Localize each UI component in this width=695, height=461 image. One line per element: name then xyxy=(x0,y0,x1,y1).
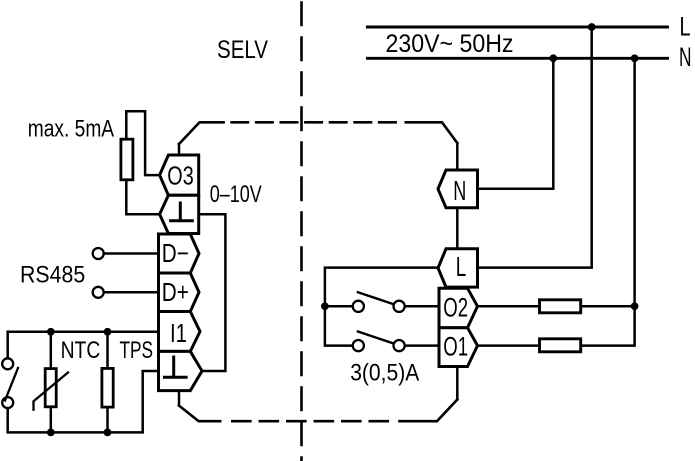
wire NTC top xyxy=(50,332,53,367)
svg-text:O2: O2 xyxy=(443,293,468,323)
svg-text:O3: O3 xyxy=(167,160,193,190)
enclosure bottom boundary left corner xyxy=(179,406,220,422)
svg-text:230V~ 50Hz: 230V~ 50Hz xyxy=(386,30,514,58)
junction dot N line left xyxy=(549,54,557,62)
svg-text:N: N xyxy=(453,175,466,206)
terminal O1 xyxy=(439,328,478,367)
terminal N xyxy=(438,170,478,208)
wire O3 terminal top to boundary xyxy=(178,144,181,155)
wire lower ground terminal bottom to boundary xyxy=(178,391,181,406)
svg-text:TPS: TPS xyxy=(120,337,154,364)
wire switch O2 to terminal O2 xyxy=(405,305,439,308)
enclosure top boundary right corner xyxy=(406,122,458,143)
junction dot TPS bottom xyxy=(104,429,112,437)
switch S1 contact circles (O1 row) xyxy=(353,340,364,351)
SELV boundary vertical dashed line xyxy=(300,3,303,461)
resistor load O1 xyxy=(540,339,581,352)
mains line L xyxy=(367,26,667,29)
terminal O3 xyxy=(160,155,199,195)
wire switch O1 to terminal O1 xyxy=(405,344,439,347)
wire N terminal top to boundary xyxy=(456,143,459,170)
wire O2 row to right vertical xyxy=(478,305,635,308)
terminal ground lower xyxy=(159,351,203,390)
switch S2 blade xyxy=(358,292,393,304)
svg-text:I1: I1 xyxy=(170,318,187,348)
svg-text:max. 5mA: max. 5mA xyxy=(28,116,114,143)
junction dot NTC bottom xyxy=(47,429,55,437)
wire NTC bottom xyxy=(50,408,53,432)
switch S2 contact circles (O2 row) xyxy=(353,301,364,312)
wire L-line to terminal L xyxy=(478,27,592,268)
terminal D- xyxy=(159,234,200,273)
wire 0-10V ground loop xyxy=(199,214,226,371)
wire N-line to terminal N xyxy=(478,58,554,188)
junction dot L line xyxy=(588,23,596,31)
svg-text:O1: O1 xyxy=(443,332,468,362)
terminal I1 xyxy=(159,312,201,352)
junction dot TPS top xyxy=(104,328,112,336)
terminal ground upper xyxy=(160,195,199,233)
ground symbol upper xyxy=(171,203,193,221)
RS485 terminal circle D- xyxy=(93,248,104,259)
ground symbol lower xyxy=(164,357,186,377)
terminal L xyxy=(438,249,478,287)
enclosure top boundary left corner xyxy=(179,122,224,144)
wire N-line down right side to O1 row xyxy=(478,58,635,345)
switch S1 blade xyxy=(358,332,393,344)
wire switch S3 top xyxy=(6,332,9,359)
junction dot N line right xyxy=(631,54,639,62)
TPS sensor body xyxy=(102,368,113,407)
terminal O2 xyxy=(439,288,478,327)
switch S3 blade xyxy=(5,368,18,401)
wire link N bottom to L top xyxy=(456,208,459,249)
switch S3 contact circles xyxy=(2,358,13,369)
wire D+ circle to terminal xyxy=(104,291,159,294)
junction dot O2 row left xyxy=(321,302,329,310)
NTC thermistor body xyxy=(45,369,56,407)
wire sensor bottom row xyxy=(8,371,159,432)
enclosure bottom boundary right corner xyxy=(400,400,458,422)
RS485 terminal circle D+ xyxy=(93,287,104,298)
junction dot NTC top xyxy=(47,328,55,336)
svg-text:NTC: NTC xyxy=(61,337,101,364)
wire resistor R1 bottom to ground terminal xyxy=(126,179,159,214)
mains line N xyxy=(367,57,667,60)
svg-text:N: N xyxy=(679,42,692,72)
svg-text:3(0,5)A: 3(0,5)A xyxy=(350,360,419,387)
enclosure bottom boundary dashed segment xyxy=(232,420,388,423)
resistor R1 max.5mA xyxy=(121,139,133,180)
wire TPS top xyxy=(106,332,109,367)
enclosure top boundary dashed segment xyxy=(232,121,397,124)
wire L terminal left to switch column xyxy=(325,268,438,346)
svg-text:SELV: SELV xyxy=(217,36,268,64)
wire sensor top row xyxy=(8,331,159,334)
wire switch row O2 stub xyxy=(325,305,353,308)
svg-text:D+: D+ xyxy=(162,277,189,307)
svg-text:D−: D− xyxy=(162,238,189,268)
svg-text:RS485: RS485 xyxy=(20,262,85,289)
wire resistor R1 top loop xyxy=(126,111,159,175)
wire D- circle to terminal xyxy=(104,252,159,255)
NTC diagonal stroke xyxy=(34,373,69,410)
wire O1 terminal bottom to boundary xyxy=(456,367,459,400)
svg-text:L: L xyxy=(456,251,467,282)
wire TPS bottom xyxy=(106,409,109,433)
svg-text:0–10V: 0–10V xyxy=(210,181,262,208)
terminal D+ xyxy=(159,273,200,312)
junction dot O2 row right xyxy=(631,302,639,310)
svg-text:L: L xyxy=(680,12,691,42)
resistor load O2 xyxy=(540,300,581,313)
